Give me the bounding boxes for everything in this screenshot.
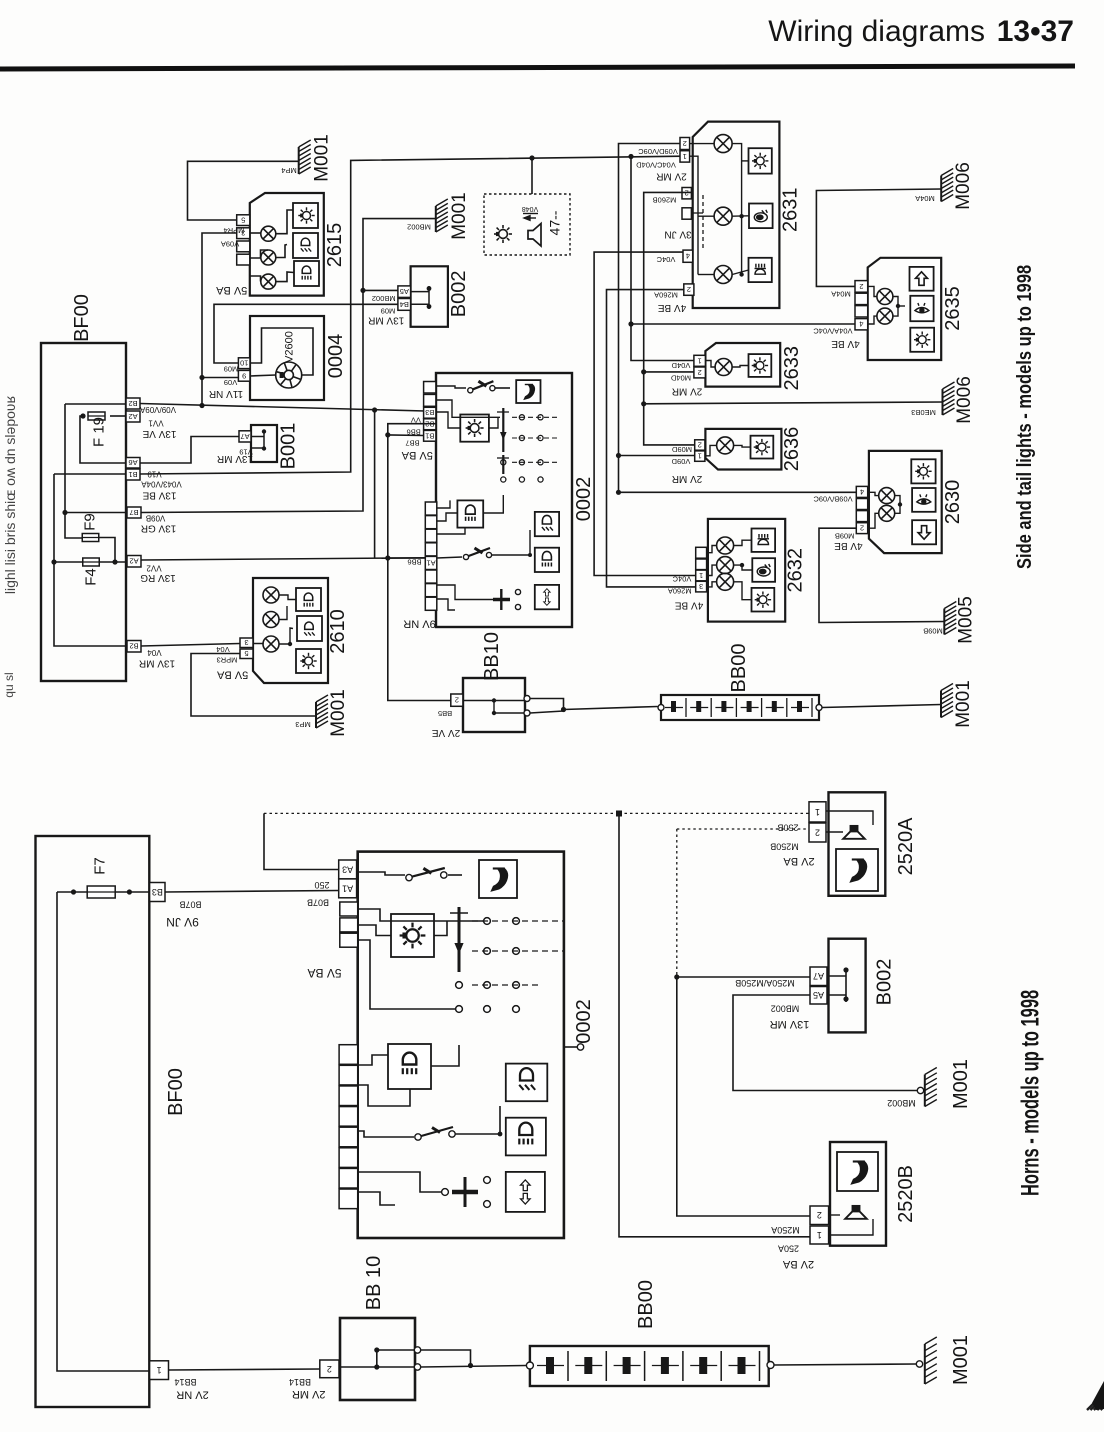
lamp unit 2610 (front side lights left) bbox=[253, 578, 328, 683]
svg-text:MP4: MP4 bbox=[281, 166, 296, 175]
side light icon box bottom bbox=[391, 914, 434, 957]
svg-text:250B: 250B bbox=[777, 823, 798, 833]
earth M006 lower bbox=[943, 382, 955, 415]
earth M001 (bottom middle) bbox=[925, 1068, 937, 1107]
svg-text:2: 2 bbox=[815, 827, 820, 837]
B002 pin B4 bbox=[398, 299, 411, 311]
svg-text:F 19: F 19 bbox=[91, 417, 108, 447]
connector BB10 (bottom) bbox=[340, 1318, 415, 1400]
svg-text:V04D: V04D bbox=[671, 361, 690, 370]
svg-text:V04A/V04C: V04A/V04C bbox=[813, 327, 853, 336]
connector strip BB00 (bottom) bbox=[530, 1346, 769, 1386]
earth M001 (bottom right) bbox=[925, 1337, 937, 1384]
svg-text:M250A: M250A bbox=[771, 1225, 800, 1235]
BF00 bottom internal wiring bbox=[57, 891, 87, 893]
BF00 pin 1 bottom bbox=[150, 1361, 169, 1380]
svg-text:B07B: B07B bbox=[307, 898, 329, 908]
2615 pin 3 bbox=[237, 228, 250, 239]
wire BF00 pin1 to BB10 pin2 bbox=[169, 1369, 320, 1370]
svg-text:2: 2 bbox=[455, 696, 459, 705]
0002 contact grid bbox=[501, 415, 543, 482]
svg-text:B002: B002 bbox=[448, 271, 470, 318]
svg-text:4: 4 bbox=[686, 252, 690, 261]
stalk icon box bottom bbox=[479, 860, 517, 898]
svg-text:250A: 250A bbox=[778, 1244, 799, 1254]
0002 upper pins bbox=[424, 382, 436, 394]
svg-text:B7: B7 bbox=[129, 508, 138, 517]
stalk icon box 0002 bbox=[516, 380, 540, 403]
svg-text:1: 1 bbox=[698, 452, 702, 461]
svg-text:BB10: BB10 bbox=[481, 632, 503, 681]
svg-text:4V BE: 4V BE bbox=[658, 302, 687, 313]
side light icon 2615 bbox=[293, 203, 318, 228]
svg-text:B001: B001 bbox=[278, 423, 300, 470]
BF00 pin A6 bbox=[126, 458, 140, 469]
svg-text:13V VE: 13V VE bbox=[142, 428, 176, 439]
svg-text:M09: M09 bbox=[224, 365, 239, 374]
svg-text:1: 1 bbox=[698, 356, 702, 365]
lamp L3 2615 bbox=[261, 274, 276, 289]
lamp L2 2632 bbox=[717, 557, 734, 574]
svg-text:F7: F7 bbox=[92, 857, 109, 875]
svg-text:1: 1 bbox=[817, 1230, 822, 1240]
svg-text:V09D/V09C: V09D/V09C bbox=[638, 147, 678, 156]
2632 internal bbox=[707, 546, 717, 553]
svg-text:M001: M001 bbox=[950, 1335, 972, 1385]
svg-text:M04A: M04A bbox=[915, 194, 935, 203]
svg-text:A1: A1 bbox=[342, 883, 353, 893]
svg-text:M001: M001 bbox=[449, 192, 470, 240]
earth M006 (upper right) bbox=[941, 169, 953, 202]
svg-text:5V BA: 5V BA bbox=[215, 284, 247, 296]
motor unit 0004 (headlamp adjuster) bbox=[250, 316, 324, 400]
side light icon 2635 bbox=[910, 328, 934, 352]
svg-text:qu sl: qu sl bbox=[2, 672, 16, 697]
svg-text:B4: B4 bbox=[400, 300, 409, 309]
svg-text:9V NR: 9V NR bbox=[403, 617, 435, 629]
wire junction to lighting dashed box bbox=[529, 155, 534, 160]
svg-text:VV2: VV2 bbox=[146, 564, 162, 573]
svg-text:BB00: BB00 bbox=[635, 1280, 657, 1329]
svg-text:5V BA: 5V BA bbox=[307, 966, 341, 980]
BF00 pin A2 lower bbox=[127, 556, 141, 568]
earth M001 MP4 bbox=[299, 140, 311, 174]
svg-text:V09B/V09C: V09B/V09C bbox=[813, 495, 853, 504]
main beam icon box 2 0002 bbox=[535, 548, 559, 572]
svg-text:4V BE: 4V BE bbox=[675, 600, 704, 611]
2615 pin blank bbox=[237, 254, 250, 265]
svg-text:2631: 2631 bbox=[780, 187, 802, 232]
lamp L2 2615 bbox=[261, 250, 276, 265]
0002 internal wires upper bbox=[436, 386, 466, 388]
0002 bottom flash switch bbox=[464, 1177, 467, 1207]
wire B3 to 0002 pin A1 bbox=[165, 891, 339, 893]
relay B001 bbox=[251, 425, 277, 462]
svg-text:4: 4 bbox=[860, 487, 864, 496]
lamp L2 2635 bbox=[877, 308, 893, 324]
svg-text:2610: 2610 bbox=[327, 609, 349, 654]
arrows icon box 0002 bbox=[535, 585, 559, 609]
2631 internal wiring bbox=[690, 156, 698, 274]
svg-text:2V MR: 2V MR bbox=[292, 1388, 326, 1400]
svg-text:lighl lisi bris shiɶ oʍ dn slə: lighl lisi bris shiɶ oʍ dn sləpoʋʁ bbox=[2, 395, 18, 594]
wire M006 to 2635 pin 2 bbox=[816, 189, 941, 286]
svg-text:2: 2 bbox=[327, 1364, 332, 1374]
wire 13V BE from B1 up to main feed bbox=[140, 156, 682, 474]
fog light icon 2631 bbox=[749, 258, 772, 282]
0002 bottom pin A1 A3 bbox=[339, 860, 357, 879]
svg-text:MB002: MB002 bbox=[771, 1004, 800, 1014]
svg-text:11V NR: 11V NR bbox=[209, 388, 243, 399]
2520A speaker symbol bbox=[843, 826, 865, 839]
svg-text:2V BA: 2V BA bbox=[783, 855, 815, 867]
svg-text:MPR4: MPR4 bbox=[224, 226, 245, 235]
wire 2610 pin5 to earth M001 MP3 bbox=[191, 654, 316, 717]
connector BB10 (top) bbox=[463, 678, 525, 732]
svg-text:4: 4 bbox=[859, 320, 863, 329]
lamp L2 2630 bbox=[879, 505, 895, 521]
svg-text:V09A: V09A bbox=[221, 240, 239, 249]
svg-text:B1: B1 bbox=[425, 431, 434, 440]
earth M001 (top right) bbox=[941, 684, 953, 718]
low beam icon box 0002 bbox=[535, 512, 559, 536]
main beam icon 2610 bbox=[296, 588, 321, 611]
2520A stalk icon bbox=[836, 849, 878, 891]
2635 pins bbox=[855, 281, 868, 293]
0002 lower pins bbox=[425, 502, 437, 515]
page corner mark bbox=[1087, 1393, 1104, 1410]
BF00 pin B7 bbox=[127, 507, 141, 518]
svg-text:A5: A5 bbox=[813, 990, 824, 1000]
wire to 2630 pin 4 bbox=[619, 491, 857, 493]
2615 pin blank bbox=[237, 241, 250, 252]
svg-text:F4: F4 bbox=[83, 568, 100, 586]
side light icon 2636 bbox=[751, 436, 774, 459]
svg-text:4V BE: 4V BE bbox=[831, 338, 860, 349]
svg-text:Wiring diagrams: Wiring diagrams bbox=[768, 15, 985, 48]
svg-text:V043/V04A: V043/V04A bbox=[141, 480, 182, 489]
svg-text:BB 10: BB 10 bbox=[363, 1256, 385, 1310]
svg-text:B2: B2 bbox=[128, 399, 137, 408]
svg-text:2V MR: 2V MR bbox=[672, 386, 703, 397]
svg-text:0002: 0002 bbox=[573, 477, 595, 522]
lamp L1 2615 bbox=[261, 226, 276, 241]
number plate lamp unit 2633 bbox=[705, 343, 780, 387]
svg-text:A6: A6 bbox=[128, 458, 137, 467]
svg-text:BB5: BB5 bbox=[438, 709, 452, 718]
svg-text:V04C/V04D: V04C/V04D bbox=[636, 161, 676, 170]
eye icon 2635 bbox=[910, 296, 933, 321]
svg-text:47--: 47-- bbox=[547, 210, 563, 235]
wire BB00 to earth M001 bbox=[816, 705, 822, 711]
BF00 pin B1 bbox=[126, 469, 140, 480]
light switch unit 0002 (top) bbox=[436, 373, 572, 627]
svg-text:2636: 2636 bbox=[781, 427, 803, 472]
down arrow icon 2630 bbox=[912, 520, 936, 544]
svg-text:2520B: 2520B bbox=[895, 1165, 917, 1223]
main beam icon box 0002 bbox=[457, 500, 483, 527]
BF00 pin A2 bbox=[126, 411, 140, 422]
BB10 internals bbox=[463, 700, 525, 702]
svg-text:13V BE: 13V BE bbox=[142, 490, 176, 501]
svg-text:2V VE: 2V VE bbox=[432, 727, 461, 738]
main beam icon 2615 bbox=[294, 261, 319, 286]
fuse F7 bbox=[87, 886, 115, 898]
svg-text:2: 2 bbox=[698, 368, 702, 377]
horn 2520A bbox=[829, 792, 886, 896]
2610 pin 5 bbox=[240, 649, 253, 659]
fuse F9 bbox=[82, 534, 99, 542]
svg-text:A1: A1 bbox=[426, 558, 435, 567]
2630 internal bbox=[868, 492, 879, 495]
svg-text:13V MR: 13V MR bbox=[368, 314, 404, 325]
svg-text:2: 2 bbox=[698, 440, 702, 449]
svg-text:0004: 0004 bbox=[325, 334, 347, 379]
2520B pins bbox=[810, 1206, 829, 1225]
svg-text:2V BA: 2V BA bbox=[782, 1258, 814, 1270]
svg-text:3V JN: 3V JN bbox=[664, 229, 691, 240]
svg-text:BB7: BB7 bbox=[405, 439, 419, 448]
0002 lower internal wires bbox=[437, 500, 450, 508]
svg-text:A7: A7 bbox=[240, 432, 249, 441]
2636 pins bbox=[695, 440, 705, 450]
svg-text:MB002: MB002 bbox=[372, 294, 396, 303]
svg-text:2: 2 bbox=[860, 524, 864, 533]
svg-text:M006: M006 bbox=[953, 162, 974, 210]
wires BB10 to BB00 bbox=[530, 699, 564, 709]
wire V09 branch to motor unit 0004 bbox=[202, 377, 238, 379]
wire BB00 to earth M001 bottom bbox=[767, 1362, 774, 1369]
0002 bottom right side exit wire bbox=[564, 1046, 577, 1048]
lamp 2636 bbox=[717, 437, 734, 454]
svg-text:3: 3 bbox=[699, 582, 703, 591]
2633 internal bbox=[705, 361, 715, 368]
lamp L3 2632 bbox=[717, 573, 734, 590]
svg-text:BF00: BF00 bbox=[165, 1068, 187, 1116]
relay B002 (bottom) bbox=[829, 939, 866, 1033]
wire M09 from 0004 pin10 to relay B002 pin B4 bbox=[214, 304, 398, 363]
svg-text:2: 2 bbox=[817, 1210, 822, 1220]
svg-text:2V MR: 2V MR bbox=[672, 473, 703, 484]
lamp L1 2631 bbox=[714, 135, 732, 153]
low beam icon 2610 bbox=[297, 616, 322, 641]
switch unit 0002 (bottom) bbox=[358, 852, 564, 1238]
svg-text:13V MR: 13V MR bbox=[770, 1018, 810, 1030]
svg-text:2520A: 2520A bbox=[895, 817, 917, 875]
rear lamp unit 2630 right bbox=[869, 451, 942, 553]
horn 2520B bbox=[830, 1142, 886, 1246]
2610 internal wiring bbox=[253, 643, 263, 646]
svg-text:13V MR: 13V MR bbox=[139, 658, 175, 669]
svg-text:V2600: V2600 bbox=[283, 331, 295, 363]
svg-text:B3: B3 bbox=[425, 408, 434, 417]
svg-text:M260A: M260A bbox=[654, 291, 678, 300]
connector strip BB00 (top) bbox=[661, 695, 819, 720]
svg-text:MPR3: MPR3 bbox=[217, 656, 238, 665]
0002 internal: stalk switch bbox=[468, 388, 473, 393]
2610 pin 3 bbox=[240, 638, 253, 648]
svg-text:B1: B1 bbox=[128, 470, 137, 479]
svg-text:BB00: BB00 bbox=[728, 644, 750, 693]
lamp L1 2630 bbox=[879, 488, 895, 504]
0004 pin 10 bbox=[238, 358, 250, 369]
svg-text:3: 3 bbox=[244, 638, 248, 647]
ghost print-through text left margin bbox=[2, 395, 18, 697]
tail light icon 2631 bbox=[749, 204, 773, 229]
2632 pins bbox=[696, 547, 707, 558]
main beam icon 2 box bottom bbox=[506, 1118, 546, 1156]
svg-text:M09B: M09B bbox=[923, 627, 943, 636]
2615 pin 5 bbox=[237, 215, 250, 226]
svg-text:V04: V04 bbox=[147, 648, 162, 657]
BB10 bottom internals bbox=[339, 1366, 415, 1368]
svg-text:2V NR: 2V NR bbox=[176, 1389, 208, 1401]
svg-text:10: 10 bbox=[240, 359, 248, 368]
svg-text:MB002: MB002 bbox=[887, 1098, 916, 1108]
svg-text:M09: M09 bbox=[381, 306, 396, 315]
svg-text:5V BA: 5V BA bbox=[216, 669, 248, 681]
svg-text:2V MR: 2V MR bbox=[656, 171, 687, 182]
svg-text:BB14: BB14 bbox=[174, 1377, 196, 1387]
svg-text:M09D: M09D bbox=[671, 445, 692, 454]
svg-text:5: 5 bbox=[241, 216, 245, 225]
wire to relay B002 pin A7 bbox=[677, 976, 810, 978]
0004 internal wiring bbox=[250, 328, 313, 375]
0002 bottom internal wires bbox=[358, 872, 405, 875]
2633 pins bbox=[694, 355, 706, 366]
indicator side repeater unit 2635 bbox=[868, 258, 942, 360]
svg-text:B07B: B07B bbox=[179, 900, 201, 910]
svg-text:MB002: MB002 bbox=[407, 223, 431, 232]
B002 pin A5 bbox=[398, 286, 411, 298]
wire 2615 pin5 to earth M001 bbox=[188, 161, 299, 220]
svg-text:2632: 2632 bbox=[784, 548, 806, 593]
svg-text:V09D: V09D bbox=[671, 457, 690, 466]
earth M001 MP3 bbox=[316, 695, 328, 728]
svg-text:B3: B3 bbox=[152, 887, 163, 897]
main beam icon box bottom bbox=[388, 1044, 431, 1089]
B001 pin A7 bbox=[239, 431, 251, 442]
0002 bottom lower pins bbox=[339, 1045, 358, 1065]
eye icon 2630 bbox=[912, 488, 936, 512]
tail icon 2632 bbox=[752, 558, 775, 582]
svg-text:A2: A2 bbox=[129, 557, 138, 566]
header rule bbox=[0, 64, 1075, 72]
svg-text:M260A: M260A bbox=[668, 587, 692, 596]
wires B2 B1 of 0002 bbox=[388, 424, 451, 701]
dotted wire to 2520A pin 2 bbox=[677, 828, 809, 830]
motor symbol V2600 bbox=[276, 362, 302, 388]
svg-text:2: 2 bbox=[859, 282, 863, 291]
lamp L1 2635 bbox=[877, 289, 893, 305]
BF00 pin B3 bottom bbox=[150, 883, 165, 902]
svg-text:A3: A3 bbox=[342, 864, 353, 874]
dashed option box 47-- bbox=[484, 194, 570, 255]
svg-text:V04: V04 bbox=[216, 645, 229, 654]
svg-text:M001: M001 bbox=[328, 689, 349, 737]
wire junction down to horn 2520B bbox=[619, 813, 810, 1236]
BB10 pin 2 bbox=[451, 694, 463, 706]
0002 bottom dip switch bbox=[415, 1134, 421, 1140]
BB10 bottom pin 2 bbox=[320, 1360, 339, 1378]
wire to 0002 pin A1 bbox=[388, 557, 426, 559]
svg-text:VV1: VV1 bbox=[148, 419, 164, 428]
fuse F19 bbox=[88, 412, 105, 420]
2636 internal bbox=[705, 445, 717, 455]
2520B stalk icon bbox=[837, 1152, 878, 1191]
wire to M006 second earth bbox=[644, 402, 943, 404]
svg-text:13V MR: 13V MR bbox=[217, 453, 253, 464]
svg-text:1: 1 bbox=[699, 571, 703, 580]
relay B002 (top) bbox=[411, 266, 448, 327]
0002 dip switch bbox=[463, 554, 468, 559]
fuse F4 bbox=[83, 558, 100, 566]
svg-text:2: 2 bbox=[683, 139, 687, 148]
svg-text:V04C: V04C bbox=[672, 575, 691, 584]
svg-text:M04D: M04D bbox=[670, 374, 691, 383]
lamp L2 2610 bbox=[263, 612, 279, 628]
svg-text:2633: 2633 bbox=[781, 346, 803, 391]
lamp L2 2631 bbox=[714, 207, 732, 225]
svg-text:1: 1 bbox=[683, 152, 687, 161]
wire 13V MR from lower B2 to lamp unit 2610 bbox=[141, 644, 240, 647]
svg-text:5: 5 bbox=[244, 649, 248, 658]
BF00 internal wiring bbox=[80, 416, 126, 463]
side light icon 2632 bbox=[752, 588, 775, 612]
side light icon 2633 bbox=[749, 354, 772, 377]
wires BB10 to BB00 bottom bbox=[421, 1350, 471, 1366]
svg-text:2630: 2630 bbox=[942, 480, 964, 525]
wire V19 from BF00 A6 to B001 bbox=[140, 437, 239, 464]
svg-text:F9: F9 bbox=[82, 513, 99, 531]
svg-text:9: 9 bbox=[242, 371, 246, 380]
svg-text:BB14: BB14 bbox=[289, 1377, 311, 1387]
lamp L1 2610 bbox=[263, 587, 279, 603]
2615 internal wiring bbox=[250, 232, 261, 234]
lamp 2633 bbox=[715, 359, 732, 376]
earth M001 MB002 (top) bbox=[436, 199, 448, 232]
horn icon in dashed box bbox=[528, 224, 541, 247]
svg-text:A7: A7 bbox=[813, 971, 824, 981]
svg-text:MP3: MP3 bbox=[295, 720, 310, 729]
0002 flash switch bbox=[500, 589, 502, 610]
svg-text:M006: M006 bbox=[954, 376, 975, 424]
B002 bottom pins bbox=[810, 967, 827, 986]
svg-text:M001: M001 bbox=[950, 1059, 972, 1109]
wire A3 up and to horn 2520A (dotted) bbox=[264, 813, 339, 869]
svg-text:B002: B002 bbox=[874, 959, 896, 1006]
svg-text:2615: 2615 bbox=[324, 223, 346, 268]
BF00 pin B2 bbox=[126, 398, 140, 409]
svg-text:1: 1 bbox=[815, 807, 820, 817]
lamp unit 2615 (front side lights) bbox=[250, 193, 324, 296]
wire junction vertical to 13V RG wire bbox=[374, 410, 376, 558]
svg-text:M001: M001 bbox=[312, 134, 333, 182]
svg-text:V09/V09A: V09/V09A bbox=[139, 405, 176, 414]
lamp L3 2631 bbox=[714, 266, 732, 284]
arrow icon 2635 bbox=[910, 267, 934, 291]
wire to 2636 pin 1 bbox=[619, 455, 695, 457]
lamp unit 2631 (rear lamp left) bbox=[693, 122, 780, 308]
wire 2630 pin2 to earth M005 bbox=[819, 528, 944, 622]
0002 bottom internals: stalk switch bbox=[406, 874, 412, 880]
wire 13V RG from lower A2 to switch pin A1 bbox=[141, 558, 425, 560]
low beam icon box bottom bbox=[506, 1064, 548, 1102]
side light icon box 0002 bbox=[460, 415, 489, 442]
svg-text:13•37: 13•37 bbox=[997, 15, 1074, 48]
wire V09A up to lamp unit 2615 bbox=[202, 233, 237, 406]
svg-text:BB6: BB6 bbox=[407, 558, 421, 567]
